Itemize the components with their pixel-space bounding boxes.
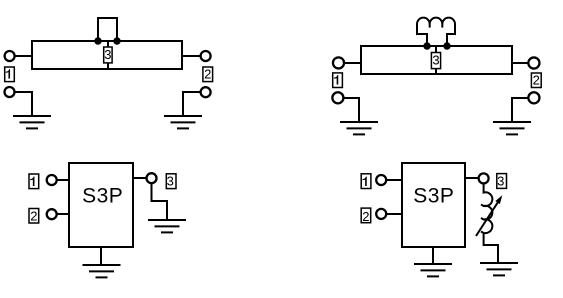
svg-text:3: 3 [104, 47, 111, 62]
svg-text:2: 2 [533, 73, 540, 88]
svg-text:3: 3 [167, 174, 174, 189]
svg-text:2: 2 [362, 209, 369, 224]
svg-text:S3P: S3P [82, 184, 123, 207]
svg-text:3: 3 [432, 53, 439, 68]
svg-text:2: 2 [30, 209, 37, 224]
svg-text:S3P: S3P [413, 184, 454, 207]
svg-text:2: 2 [204, 67, 211, 82]
svg-text:3: 3 [497, 174, 504, 189]
